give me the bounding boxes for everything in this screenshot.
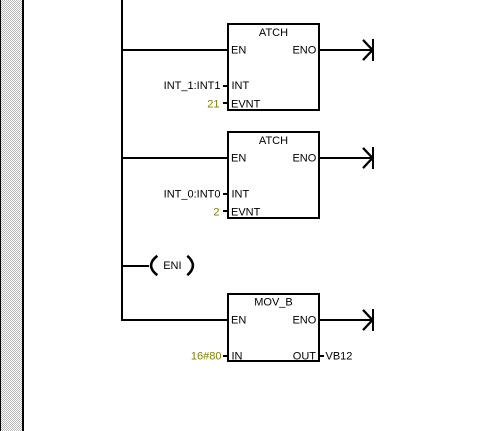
svg-text:INT: INT: [232, 189, 250, 201]
svg-text:EN: EN: [231, 45, 246, 57]
svg-text:EVNT: EVNT: [231, 99, 261, 111]
svg-text:INT_0:INT0: INT_0:INT0: [164, 189, 221, 201]
svg-text:ENI: ENI: [163, 260, 181, 272]
svg-text:ENO: ENO: [292, 153, 316, 165]
svg-text:VB12: VB12: [326, 351, 353, 363]
svg-text:EVNT: EVNT: [231, 207, 261, 219]
svg-text:2: 2: [213, 207, 219, 219]
svg-text:ATCH: ATCH: [259, 27, 288, 39]
svg-text:EN: EN: [231, 153, 246, 165]
svg-text:OUT: OUT: [293, 351, 317, 363]
svg-text:ATCH: ATCH: [259, 135, 288, 147]
svg-text:ENO: ENO: [292, 315, 316, 327]
svg-text:MOV_B: MOV_B: [254, 297, 293, 309]
svg-text:16#80: 16#80: [191, 351, 222, 363]
svg-text:INT: INT: [232, 80, 250, 92]
svg-text:IN: IN: [232, 351, 243, 363]
svg-text:21: 21: [207, 99, 219, 111]
svg-text:EN: EN: [231, 315, 246, 327]
svg-text:INT_1:INT1: INT_1:INT1: [164, 80, 221, 92]
svg-text:ENO: ENO: [292, 45, 316, 57]
